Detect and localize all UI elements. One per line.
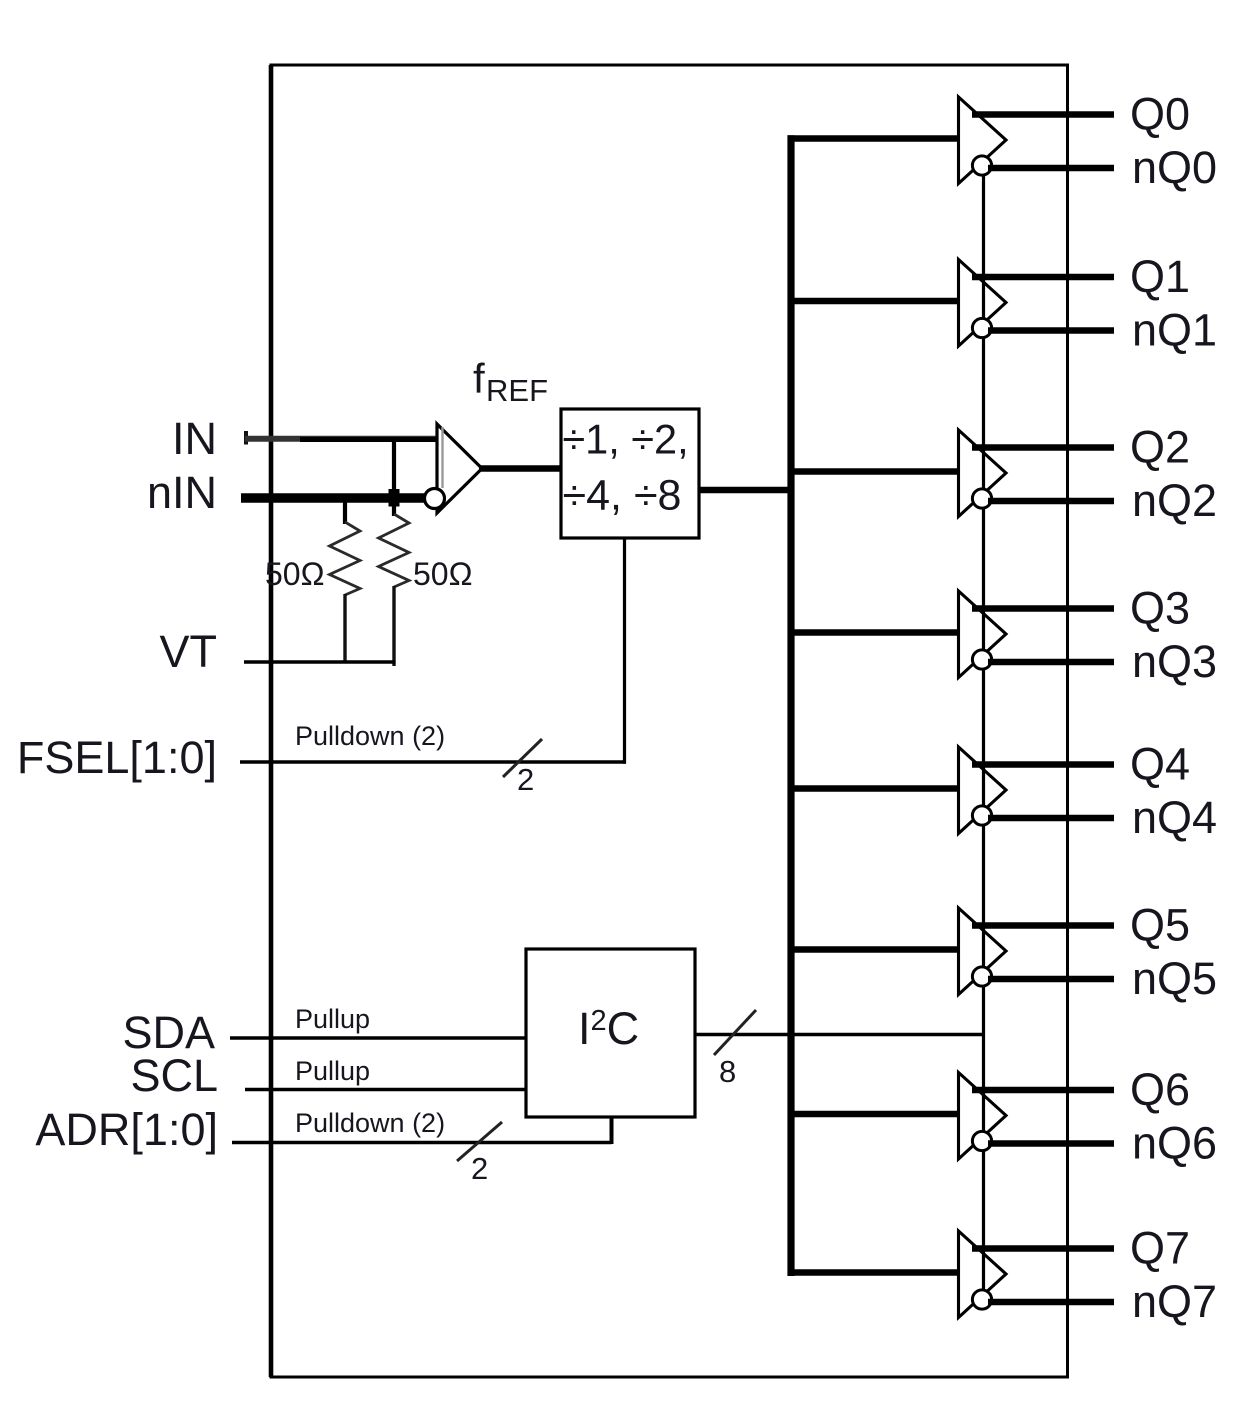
svg-text:Q1: Q1: [1130, 251, 1190, 302]
label nIN: [147, 467, 217, 518]
wire IN input: [244, 431, 437, 445]
label Pullup SCL: [295, 1056, 370, 1086]
svg-text:÷1, ÷2,: ÷1, ÷2,: [562, 416, 688, 463]
label Pulldown (2) ADR: [295, 1108, 445, 1138]
label Q3: [1130, 583, 1190, 634]
inversion bubble on nIN input: [425, 489, 445, 509]
wire FSEL[1:0]: [240, 760, 626, 764]
wire nQ5 output: [988, 976, 1114, 983]
wire ADR[1:0]: [232, 1116, 612, 1144]
svg-text:REF: REF: [486, 373, 548, 408]
svg-text:÷4, ÷8: ÷4, ÷8: [563, 472, 682, 520]
label 50ohm right: [413, 556, 473, 592]
svg-text:Q3: Q3: [1130, 583, 1190, 634]
label I2C: [578, 1003, 639, 1054]
wire bus to output buffer 6: [788, 1111, 959, 1117]
svg-text:Pullup: Pullup: [295, 1004, 370, 1034]
wire Q3 output: [972, 605, 1114, 612]
wire IN termination drop: [389, 438, 400, 516]
main fanout bus (vertical): [787, 135, 794, 1276]
wire Q0 output: [972, 111, 1114, 118]
wire nQ6 output: [988, 1140, 1114, 1147]
wire bus to output buffer 4: [788, 785, 959, 791]
input receiver buffer U1: [437, 424, 482, 513]
inversion bubble buffer 7: [972, 1290, 991, 1309]
svg-text:Q5: Q5: [1130, 900, 1190, 951]
bus-width slash 8: [714, 1010, 756, 1055]
wire FSEL select (divider bottom stub): [623, 538, 626, 764]
label SCL: [130, 1050, 218, 1101]
label VT: [159, 626, 217, 677]
label 8 (control width): [719, 1054, 736, 1089]
output buffer 2: [959, 430, 1007, 517]
wire nQ7 output: [988, 1299, 1114, 1306]
inversion bubble buffer 2: [972, 489, 991, 508]
wire nQ3 output: [988, 659, 1114, 666]
svg-text:nQ6: nQ6: [1132, 1118, 1217, 1169]
inversion bubble buffer 6: [972, 1131, 991, 1150]
wire nQ2 output: [988, 498, 1114, 505]
svg-text:50Ω: 50Ω: [265, 556, 325, 592]
svg-text:I2C: I2C: [578, 1003, 639, 1054]
svg-text:FSEL[1:0]: FSEL[1:0]: [17, 732, 217, 783]
label Pulldown (2) FSEL: [295, 721, 445, 751]
svg-text:nIN: nIN: [147, 467, 217, 518]
wire bus to output buffer 1: [788, 298, 959, 304]
label Q0: [1130, 89, 1190, 140]
inversion bubble buffer 1: [972, 318, 991, 337]
bus-width slash 2 (ADR): [457, 1122, 502, 1161]
svg-text:8: 8: [719, 1054, 736, 1089]
label 2 (ADR width): [471, 1151, 488, 1186]
wire nIN input: [241, 493, 425, 503]
label nQ5: [1132, 953, 1217, 1004]
wire bus to output buffer 2: [788, 468, 959, 474]
inversion bubble buffer 0: [972, 156, 991, 175]
label Q7: [1130, 1223, 1190, 1274]
svg-text:nQ2: nQ2: [1132, 475, 1217, 526]
svg-text:f: f: [473, 355, 485, 402]
label nQ3: [1132, 636, 1217, 687]
wire fREF (receiver output to divider): [479, 465, 562, 472]
label FSEL[1:0]: [17, 732, 217, 783]
enable control line from I2C to all buffers: [982, 166, 985, 1301]
label nQ1: [1132, 305, 1217, 356]
wire bus to output buffer 5: [788, 946, 959, 952]
output buffer 5: [959, 908, 1007, 995]
wire nQ1 output: [988, 327, 1114, 334]
label Q4: [1130, 739, 1190, 790]
wire I2C control output (8): [695, 1033, 985, 1036]
wire bus to output buffer 0: [788, 135, 959, 141]
label 2 (FSEL width): [517, 762, 534, 797]
resistor R2 50ohm (zigzag): [379, 514, 410, 666]
wire VT: [244, 660, 396, 664]
wire SDA: [230, 1036, 527, 1040]
wire bus to output buffer 7: [788, 1269, 959, 1275]
label nQ4: [1132, 792, 1217, 843]
svg-text:nQ0: nQ0: [1132, 142, 1217, 193]
svg-text:nQ3: nQ3: [1132, 636, 1217, 687]
label Pullup SDA: [295, 1004, 370, 1034]
wire nQ4 output: [988, 815, 1114, 822]
wire Q7 output: [972, 1245, 1114, 1252]
inversion bubble buffer 3: [972, 650, 991, 669]
output buffer 1: [959, 260, 1007, 347]
wire Q1 output: [972, 274, 1114, 281]
svg-text:Pullup: Pullup: [295, 1056, 370, 1086]
wire nIN termination drop: [343, 494, 347, 524]
wire nQ0 output: [988, 165, 1114, 172]
svg-text:Q2: Q2: [1130, 422, 1190, 473]
wire Q6 output: [972, 1087, 1114, 1094]
output buffer 4: [959, 747, 1007, 834]
label Q5: [1130, 900, 1190, 951]
svg-text:2: 2: [517, 762, 534, 797]
label divider ratios: [562, 416, 688, 520]
label Q2: [1130, 422, 1190, 473]
output buffer 6: [959, 1073, 1007, 1160]
svg-text:SCL: SCL: [130, 1050, 218, 1101]
svg-text:Pulldown (2): Pulldown (2): [295, 721, 445, 751]
label Q6: [1130, 1064, 1190, 1115]
svg-text:nQ1: nQ1: [1132, 305, 1217, 356]
svg-text:Q0: Q0: [1130, 89, 1190, 140]
svg-text:Q7: Q7: [1130, 1223, 1190, 1274]
label nQ2: [1132, 475, 1217, 526]
svg-text:nQ4: nQ4: [1132, 792, 1217, 843]
wire Q5 output: [972, 922, 1114, 929]
svg-text:Q4: Q4: [1130, 739, 1190, 790]
svg-text:50Ω: 50Ω: [413, 556, 473, 592]
inversion bubble buffer 4: [972, 806, 991, 825]
wire divider output to bus: [699, 487, 795, 494]
wire Q2 output: [972, 444, 1114, 451]
wire bus to output buffer 3: [788, 629, 959, 635]
svg-text:nQ5: nQ5: [1132, 953, 1217, 1004]
chip boundary box: [271, 65, 1068, 1377]
svg-text:nQ7: nQ7: [1132, 1276, 1217, 1327]
bus-width slash 2 (FSEL): [503, 739, 542, 777]
label nQ7: [1132, 1276, 1217, 1327]
svg-text:ADR[1:0]: ADR[1:0]: [35, 1104, 218, 1155]
output buffer 0: [959, 97, 1007, 184]
label Q1: [1130, 251, 1190, 302]
svg-text:IN: IN: [172, 413, 217, 464]
wire SCL: [245, 1088, 527, 1092]
output buffer 7: [959, 1231, 1007, 1318]
label SDA: [122, 1007, 215, 1058]
output buffer 3: [959, 591, 1007, 678]
label 50ohm left: [265, 556, 325, 592]
label fREF: [473, 355, 548, 408]
label nQ6: [1132, 1118, 1217, 1169]
inversion bubble buffer 5: [972, 967, 991, 986]
label IN: [172, 413, 217, 464]
svg-text:Q6: Q6: [1130, 1064, 1190, 1115]
svg-text:VT: VT: [159, 626, 217, 677]
wire Q4 output: [972, 761, 1114, 768]
label nQ0: [1132, 142, 1217, 193]
svg-text:2: 2: [471, 1151, 488, 1186]
resistor R1 50ohm (zigzag): [330, 522, 361, 664]
I2C block: [526, 949, 695, 1117]
divider block (div 1,2,4,8): [561, 409, 699, 538]
label ADR[1:0]: [35, 1104, 218, 1155]
svg-text:Pulldown (2): Pulldown (2): [295, 1108, 445, 1138]
